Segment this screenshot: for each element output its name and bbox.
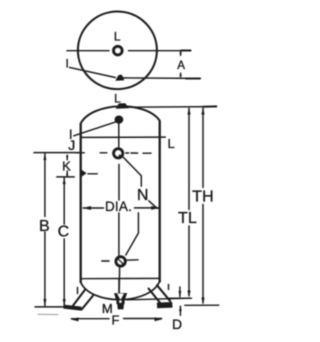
svg-text:TL: TL xyxy=(178,210,197,227)
svg-text:F: F xyxy=(112,312,120,327)
svg-text:K: K xyxy=(62,158,71,173)
svg-text:B: B xyxy=(39,218,50,235)
svg-text:A: A xyxy=(177,60,185,72)
svg-text:TH: TH xyxy=(192,189,214,206)
svg-text:C: C xyxy=(58,224,70,241)
svg-text:I: I xyxy=(65,58,68,70)
svg-text:D: D xyxy=(172,316,182,332)
svg-text:L: L xyxy=(114,91,121,105)
svg-text:L: L xyxy=(114,30,121,44)
svg-text:J: J xyxy=(68,137,75,153)
svg-text:DIA.: DIA. xyxy=(105,199,132,214)
svg-text:N: N xyxy=(137,187,149,204)
svg-text:L: L xyxy=(167,136,174,151)
